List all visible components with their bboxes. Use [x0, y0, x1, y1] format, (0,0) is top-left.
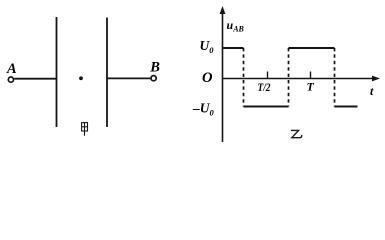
svg-text:B: B	[149, 60, 160, 76]
svg-text:uAB: uAB	[227, 18, 245, 34]
svg-text:T: T	[307, 80, 315, 94]
svg-text:A: A	[6, 61, 17, 77]
svg-text:O: O	[202, 70, 213, 86]
svg-text:U0: U0	[200, 38, 215, 55]
svg-text:T/2: T/2	[258, 82, 271, 94]
svg-text:t: t	[370, 84, 374, 98]
svg-text:–U0: –U0	[192, 101, 215, 118]
